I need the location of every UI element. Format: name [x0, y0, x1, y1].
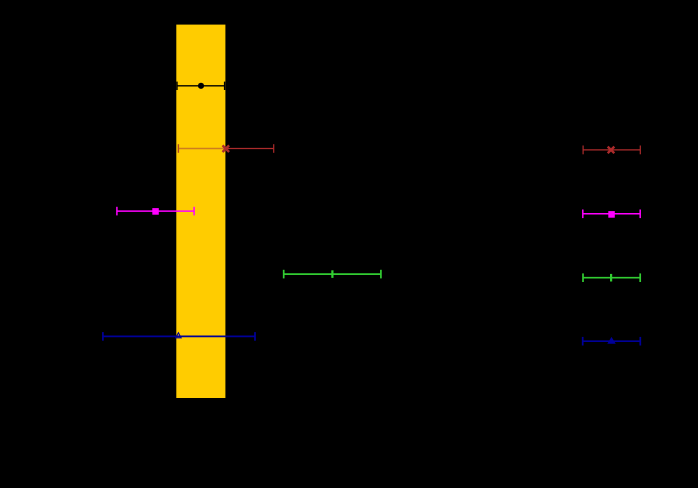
measurement 3 error bar right (green)	[583, 273, 640, 282]
measurement 1 marker left (bold red x-cross)	[223, 145, 230, 152]
measurement 1 error bar left (dark red)	[226, 144, 274, 153]
measurement 2 error bar left (magenta)	[117, 207, 194, 216]
average error bar (black)	[177, 82, 225, 90]
measurement 1 error bar left over band (blended dark red on yellow)	[178, 144, 225, 153]
measurement 4 marker right (filled navy triangle)	[607, 337, 616, 344]
measurement 2 marker left (magenta square)	[152, 208, 159, 215]
average band	[176, 25, 225, 398]
measurement 2 error bar right (magenta)	[583, 210, 640, 219]
average marker (black circle)	[198, 83, 204, 89]
measurement 3 marker left (green plus)	[331, 270, 333, 278]
measurement 4 marker left (open navy triangle)	[176, 333, 181, 338]
measurement 3 marker right (green plus)	[610, 274, 612, 282]
measurement 1 marker right (bold red x-cross)	[608, 147, 615, 154]
measurement 3 error bar left (green)	[284, 270, 381, 279]
measurement 4 error bar left (navy blue)	[103, 332, 255, 341]
measurement 4 error bar right (navy blue)	[583, 337, 641, 346]
measurement 2 marker right (magenta square)	[608, 211, 615, 218]
measurement 1 error bar right (dark red)	[583, 146, 640, 155]
